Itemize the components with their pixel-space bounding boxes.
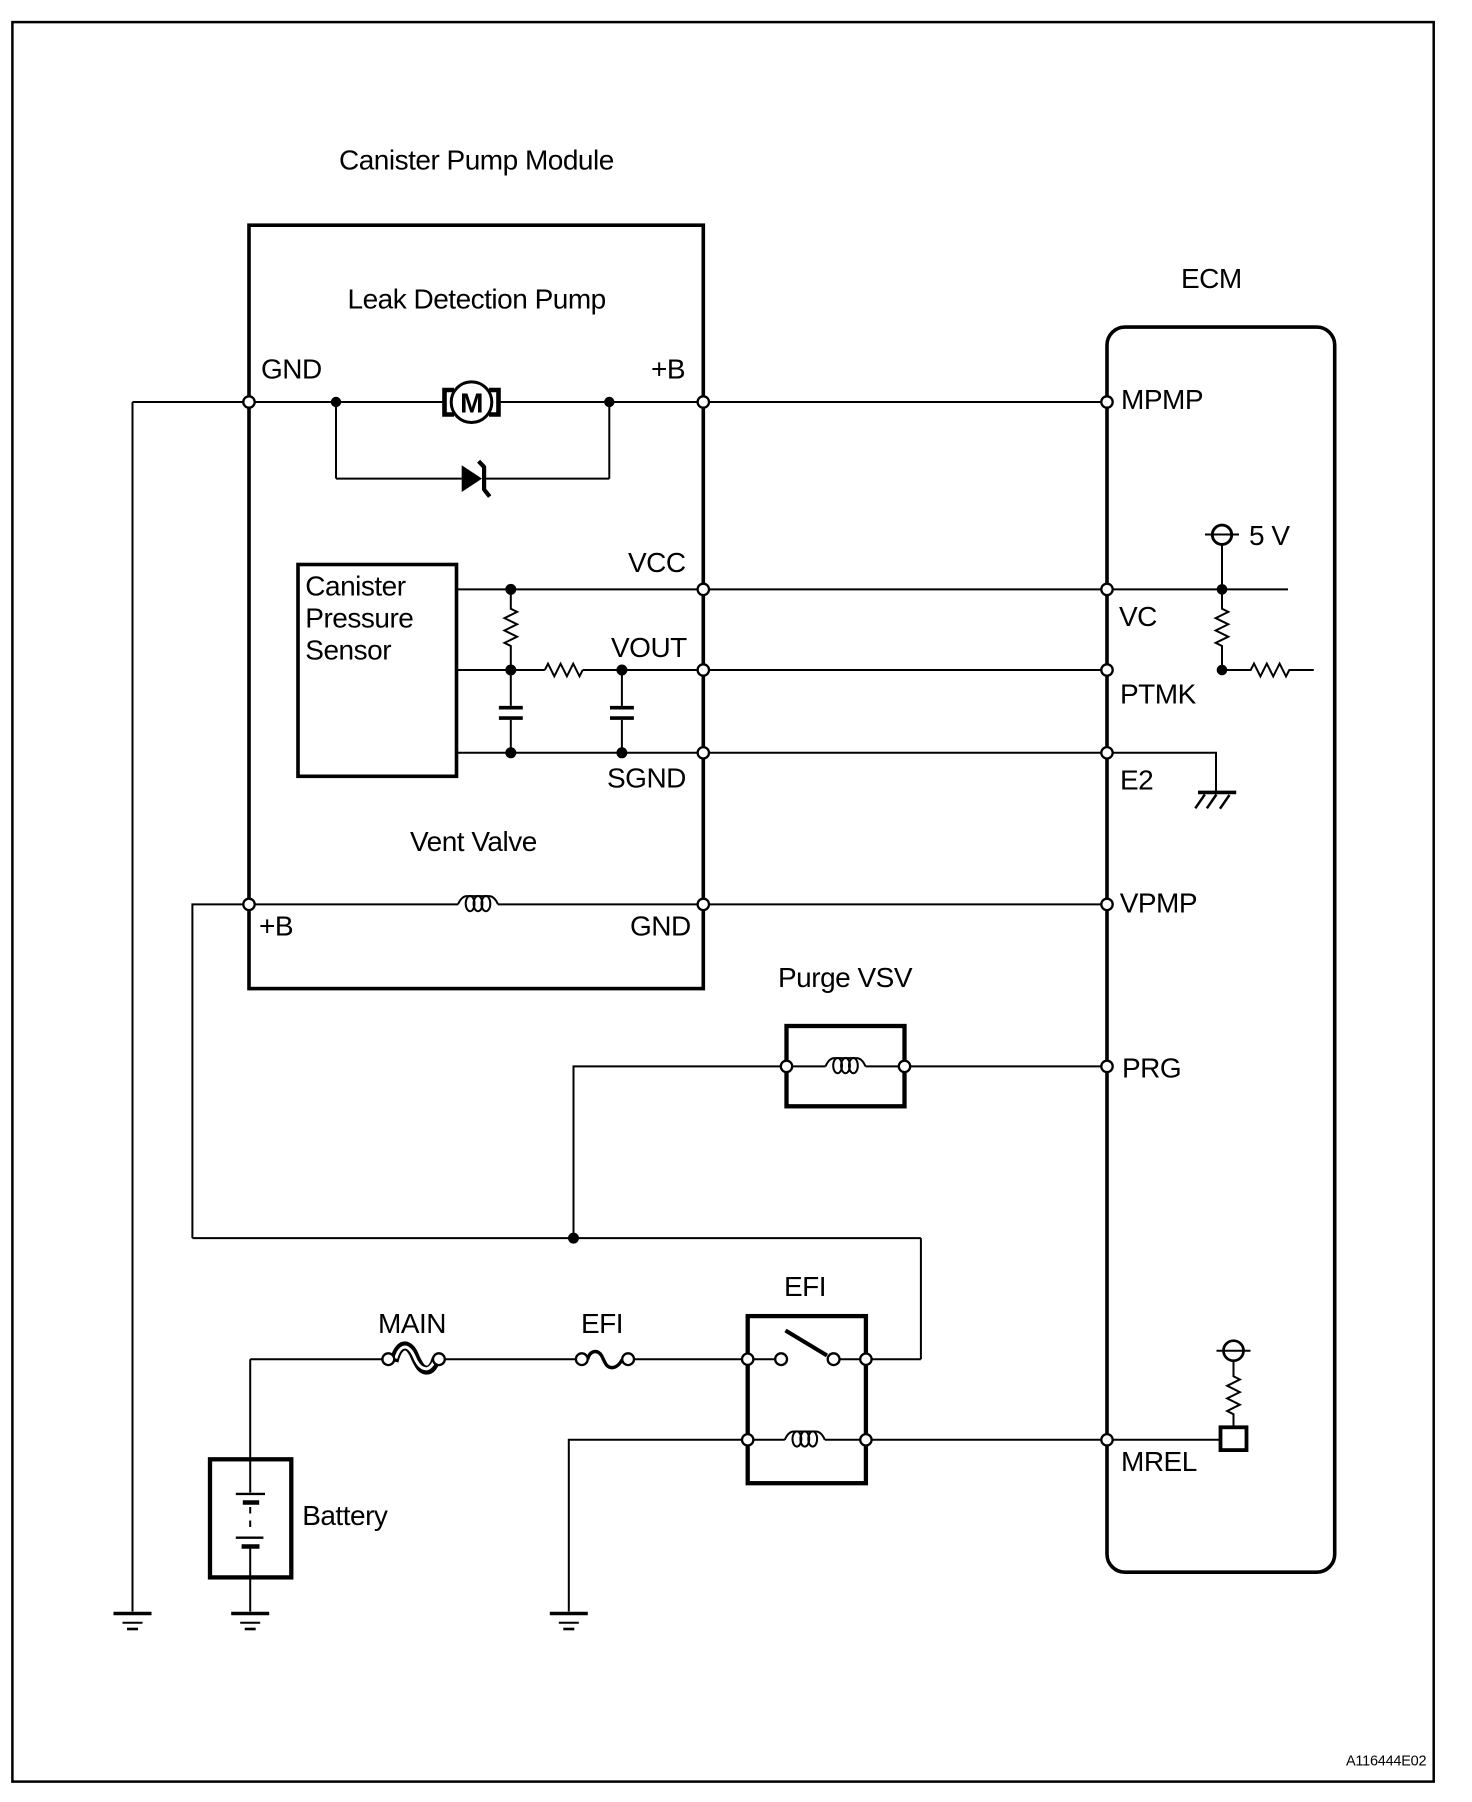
wire relay switch row inside — [753, 1358, 860, 1360]
junction dot VOUT left — [505, 665, 516, 676]
svg-text:Leak Detection Pump: Leak Detection Pump — [348, 284, 606, 315]
junction dot PTMK — [1217, 665, 1228, 676]
junction dot motor left — [331, 397, 341, 407]
relay coil L3 — [785, 1431, 825, 1446]
diode D1 triangle — [462, 465, 482, 492]
svg-text:Canister Pump Module: Canister Pump Module — [339, 145, 614, 176]
5V supply symbol — [1212, 525, 1231, 544]
purge VSV box — [787, 1026, 905, 1106]
wire VOUT row — [457, 669, 1108, 671]
EFI relay box — [748, 1316, 866, 1483]
svg-text:GND: GND — [261, 353, 322, 384]
svg-text:SGND: SGND — [607, 763, 686, 794]
node relay coil left — [742, 1434, 753, 1445]
wire diode branch left vertical — [335, 402, 337, 479]
ground G3 (relay coil) — [550, 1614, 588, 1630]
svg-text:MAIN: MAIN — [378, 1308, 446, 1339]
capacitor C1 plates — [499, 706, 523, 710]
battery box — [210, 1459, 291, 1577]
fusible link MAIN white stripe — [396, 1347, 435, 1369]
svg-text:GND: GND — [630, 911, 691, 942]
wire GND pin to left bus — [133, 401, 250, 403]
svg-text:VCC: VCC — [628, 547, 686, 578]
canister pump module box — [249, 225, 703, 988]
node purge VSV left — [781, 1061, 792, 1072]
wire vent valve row — [249, 903, 1107, 905]
node GND (module right, vent row) — [698, 899, 709, 910]
wire purge VSV to PRG — [910, 1065, 1107, 1067]
svg-text:PRG: PRG — [1122, 1053, 1181, 1084]
diode D1 cathode — [479, 461, 490, 496]
node VC at ECM — [1101, 584, 1112, 595]
svg-text:Battery: Battery — [302, 1500, 388, 1531]
ECM box — [1107, 327, 1335, 1572]
chassis ground E2 bar — [1198, 791, 1236, 795]
wire +B feed from vent valve — [192, 904, 243, 1238]
relay switch contact left — [775, 1353, 787, 1365]
svg-text:+B: +B — [259, 911, 293, 942]
ground G1 (left bus) — [114, 1614, 152, 1630]
fusible link MAIN band — [394, 1346, 436, 1370]
node +B (module left, vent row) — [243, 899, 254, 910]
node SGND (module right) — [698, 747, 709, 758]
node +B (module right, motor row) — [698, 396, 709, 407]
battery top lead — [249, 1461, 251, 1493]
vent valve coil L1 — [458, 896, 498, 911]
svg-text:A116444E02: A116444E02 — [1346, 1754, 1426, 1770]
node PTMK at ECM — [1101, 664, 1112, 675]
node MREL at ECM — [1101, 1434, 1112, 1445]
fuse EFI terminal right — [622, 1353, 634, 1365]
node VCC (module right) — [698, 584, 709, 595]
node VPMP at ECM — [1101, 899, 1112, 910]
wire VC line inside ECM — [1113, 588, 1289, 590]
node PRG at ECM — [1101, 1061, 1112, 1072]
relay switch contact right — [828, 1353, 840, 1365]
node relay coil right — [860, 1434, 871, 1445]
wire VCC row — [457, 588, 1108, 590]
ground G2 (battery) — [231, 1614, 269, 1630]
MREL pullup supply circle — [1224, 1341, 1244, 1361]
resistor R5 (MREL pullup) — [1227, 1361, 1240, 1428]
svg-text:PTMK: PTMK — [1120, 679, 1197, 710]
capacitor C2 plates — [610, 706, 634, 710]
node relay switch right — [860, 1354, 871, 1365]
wire purge coil leads — [792, 1065, 899, 1067]
svg-text:+B: +B — [651, 353, 685, 384]
svg-text:M: M — [460, 387, 483, 418]
fuse MAIN terminal right — [433, 1353, 445, 1365]
svg-text:Pressure: Pressure — [305, 603, 413, 634]
capacitor C2 leads — [621, 670, 623, 753]
wire relay coil to ground — [569, 1440, 743, 1612]
fuse EFI wave — [588, 1352, 623, 1368]
resistor R1 (sensor pull) — [504, 589, 517, 670]
wire diode row — [336, 478, 609, 480]
wire +B horizontal bus — [192, 1237, 921, 1239]
svg-text:VPMP: VPMP — [1120, 888, 1197, 919]
resistor R4 (PTMK series) — [1222, 664, 1314, 677]
svg-text:Vent Valve: Vent Valve — [410, 826, 537, 857]
svg-text:MREL: MREL — [1121, 1446, 1197, 1477]
wire E2 to ground — [1113, 753, 1217, 792]
battery plate long top — [236, 1493, 265, 1495]
battery plate short bottom — [242, 1544, 260, 1549]
junction dot SGND left — [505, 747, 516, 758]
junction dot +B bus — [568, 1233, 579, 1244]
resistor R2 (series VOUT) — [545, 664, 583, 677]
svg-text:ECM: ECM — [1181, 263, 1242, 294]
motor M1 circle — [451, 382, 492, 423]
battery plate short top — [243, 1500, 259, 1505]
capacitor C1 leads — [510, 670, 512, 753]
wire motor row — [249, 401, 1107, 403]
wire fuse row — [250, 1358, 748, 1360]
purge VSV coil L2 — [826, 1058, 866, 1073]
wire diode branch right vertical — [608, 402, 610, 479]
svg-text:VOUT: VOUT — [611, 632, 687, 663]
svg-text:E2: E2 — [1120, 765, 1153, 796]
svg-text:MPMP: MPMP — [1121, 384, 1203, 415]
fuse MAIN terminal left — [382, 1353, 394, 1365]
wire SGND row — [457, 752, 1108, 754]
fuse EFI terminal left — [576, 1353, 588, 1365]
battery plate long bottom — [236, 1536, 264, 1538]
svg-text:Purge VSV: Purge VSV — [778, 962, 913, 993]
battery bottom lead to ground — [249, 1548, 251, 1612]
motor M1 bracket right — [489, 390, 499, 415]
chassis ground E2 hatches — [1195, 795, 1229, 809]
relay switch blade — [786, 1331, 828, 1356]
junction dot VOUT right — [616, 665, 627, 676]
junction dot VC — [1217, 584, 1228, 595]
node E2 at ECM — [1101, 747, 1112, 758]
battery dashed link — [249, 1507, 251, 1533]
node relay switch left — [742, 1354, 753, 1365]
svg-text:5 V: 5 V — [1249, 520, 1290, 551]
MREL driver square — [1221, 1427, 1247, 1450]
resistor R3 (ECM pullup VC-PTMK) — [1216, 589, 1229, 670]
node MPMP at ECM — [1101, 396, 1112, 407]
wire purge VSV left to +B bus — [574, 1066, 782, 1238]
junction dot VCC — [505, 584, 516, 595]
motor M1 bracket left — [445, 390, 455, 415]
junction dot motor right — [604, 397, 614, 407]
wire relay coil leads — [753, 1439, 860, 1441]
wire battery feed — [249, 1359, 251, 1461]
wire bus to relay switch — [866, 1238, 921, 1359]
node VOUT (module right) — [698, 664, 709, 675]
node purge VSV right — [899, 1061, 910, 1072]
svg-text:EFI: EFI — [784, 1271, 826, 1302]
wire MREL row — [871, 1439, 1220, 1441]
svg-text:Sensor: Sensor — [305, 635, 391, 666]
wire 5V to VC line — [1221, 544, 1223, 589]
svg-text:EFI: EFI — [581, 1308, 623, 1339]
wire left ground bus vertical — [132, 402, 134, 1612]
node GND (module left, motor row) — [243, 396, 254, 407]
canister pressure sensor box — [298, 565, 457, 777]
svg-text:Canister: Canister — [305, 571, 405, 602]
junction dot SGND right — [616, 747, 627, 758]
svg-text:VC: VC — [1119, 601, 1157, 632]
